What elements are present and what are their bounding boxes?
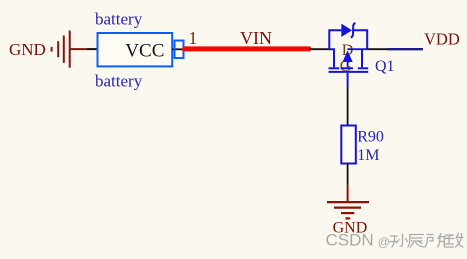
svg-text:VCC: VCC xyxy=(125,40,164,61)
svg-text:VDD: VDD xyxy=(424,29,460,48)
svg-text:@: @ xyxy=(378,235,390,249)
svg-text:R90: R90 xyxy=(357,128,384,145)
svg-text:1: 1 xyxy=(189,28,198,48)
svg-text:battery: battery xyxy=(95,10,143,29)
svg-text:CSDN: CSDN xyxy=(326,231,374,250)
svg-text:GND: GND xyxy=(9,40,46,59)
svg-text:Q1: Q1 xyxy=(375,58,395,75)
svg-text:1M: 1M xyxy=(357,147,379,164)
svg-text:VIN: VIN xyxy=(240,28,272,48)
svg-text:battery: battery xyxy=(95,72,143,91)
